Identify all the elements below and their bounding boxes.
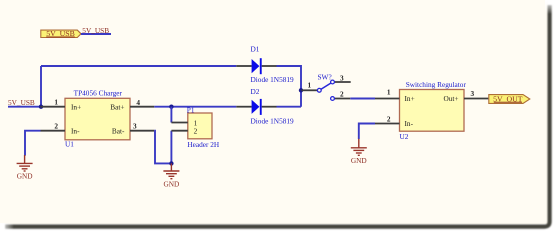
wire 5V_USB into junction [8, 106, 41, 108]
svg-text:SW?: SW? [318, 72, 332, 81]
svg-text:3: 3 [340, 73, 344, 82]
svg-text:1: 1 [308, 81, 312, 90]
svg-text:3: 3 [471, 89, 475, 98]
svg-text:GND: GND [163, 179, 179, 188]
wire top rail to D1 [41, 65, 236, 67]
svg-text:D1: D1 [251, 45, 260, 54]
pin 2 (U1 In-) [41, 130, 66, 132]
junction (diodes / switch) [299, 88, 303, 92]
svg-text:Diode 1N5819: Diode 1N5819 [251, 75, 295, 84]
wire D2 cathode to vertical [277, 106, 302, 108]
ground GND (right) [351, 139, 367, 156]
svg-text:2: 2 [54, 121, 58, 130]
diode D1 [236, 45, 294, 84]
svg-text:2: 2 [340, 90, 344, 99]
wire D1 cathode to vertical [277, 66, 302, 107]
junction (Bat+ / P1.1) [169, 105, 173, 109]
svg-text:2: 2 [194, 126, 198, 135]
svg-text:1: 1 [54, 98, 58, 107]
wire Bat- down and right [154, 131, 171, 164]
pin 3 (U1 Bat-) [130, 130, 154, 132]
svg-text:U1: U1 [65, 139, 74, 148]
svg-text:In-: In- [71, 126, 80, 135]
svg-text:TP4056 Charger: TP4056 Charger [74, 89, 123, 98]
pin 2 (U2 In-) [375, 123, 400, 125]
svg-text:3: 3 [133, 121, 137, 130]
header P1 [187, 106, 220, 149]
diode D2 [236, 87, 294, 126]
junction (5V_USB / In+) [39, 105, 43, 109]
wire vertical up to top rail [40, 66, 42, 107]
wire (stub right of top port) [81, 33, 111, 35]
svg-text:Bat-: Bat- [112, 126, 125, 135]
svg-text:In+: In+ [405, 94, 415, 103]
svg-text:In+: In+ [71, 102, 81, 111]
svg-text:4: 4 [136, 98, 140, 107]
pin 4 (U1 Bat+) [130, 106, 154, 108]
pin 1 (P1) [171, 122, 187, 124]
wire junction down to P1 pin1 [170, 107, 172, 123]
pin 1 (U1 In+) [41, 106, 66, 108]
svg-text:Out+: Out+ [443, 94, 458, 103]
svg-text:In-: In- [405, 119, 414, 128]
power port 5V_OUT [489, 94, 530, 103]
svg-text:Switching Regulator: Switching Regulator [406, 80, 467, 89]
pin 3 (U2 Out+) [464, 98, 488, 100]
wire In- to ground [25, 131, 41, 156]
wire Bat+ rail to D2 [154, 106, 236, 108]
ground GND (left) [17, 155, 33, 171]
svg-text:U2: U2 [400, 132, 409, 141]
wire switch pin2 to U2 [350, 98, 375, 100]
svg-text:GND: GND [351, 156, 367, 165]
svg-text:5V_USB: 5V_USB [82, 26, 109, 35]
wire P1 pin2 down to ground junction [170, 131, 172, 164]
svg-text:Diode 1N5819: Diode 1N5819 [251, 117, 295, 126]
regulator U2 Switching Regulator [400, 80, 467, 141]
power port 5V_USB (top) [41, 29, 81, 38]
wire GND up to U2 In- [359, 124, 375, 140]
junction (Bat- / P1.2 / GND) [169, 161, 173, 165]
ground GND (middle) [163, 163, 179, 178]
svg-text:Bat+: Bat+ [110, 102, 124, 111]
IC U1 TP4056 Charger [65, 89, 130, 149]
pin 2 (P1) [171, 130, 187, 132]
svg-text:2: 2 [387, 115, 391, 124]
svg-text:GND: GND [17, 172, 33, 181]
svg-text:1: 1 [387, 88, 391, 97]
pin 1 (U2 In+) [375, 98, 400, 100]
switch SW? [302, 72, 351, 100]
svg-text:Header 2H: Header 2H [187, 140, 220, 149]
svg-text:5V_USB: 5V_USB [8, 98, 35, 107]
svg-text:D2: D2 [251, 87, 260, 96]
svg-text:P1: P1 [187, 106, 195, 115]
